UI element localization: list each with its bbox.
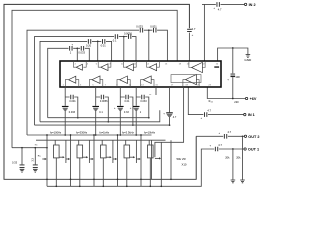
terminal +6V bbox=[245, 97, 247, 99]
terminal IN 1 bbox=[244, 113, 246, 115]
potentiometer mix VR line 1 bbox=[151, 140, 153, 179]
svg-text:20k: 20k bbox=[225, 155, 230, 159]
node OUT2 junction bbox=[242, 135, 244, 137]
wire loop L6 top run bbox=[48, 48, 90, 117]
wire electrolytic to VR bus bbox=[95, 111, 97, 136]
potentiometer VR8 50k drop bbox=[126, 158, 128, 186]
op-amp B5 mixing (bottom row, left-pointing) bbox=[186, 74, 197, 84]
capacitor 0.033 (series) bbox=[136, 97, 149, 118]
ground (OUT2 load) bbox=[240, 180, 245, 183]
wire band 2 feed bbox=[88, 140, 90, 163]
wire loop L5 top run bbox=[40, 41, 112, 121]
svg-text:0.033: 0.033 bbox=[78, 50, 85, 54]
node L5 junction to pin 6 bbox=[97, 41, 99, 43]
svg-text:0.033: 0.033 bbox=[140, 100, 147, 103]
capacitor 0.033 (L3) bbox=[140, 28, 142, 33]
ground GND symbol bbox=[246, 55, 251, 58]
svg-text:4.7: 4.7 bbox=[218, 143, 222, 147]
ground (OUT1 load) bbox=[231, 180, 236, 183]
capacitor 0.001 (L3) bbox=[154, 28, 156, 33]
wire internal links top row bbox=[73, 61, 159, 67]
node L4 junction to pin 10 bbox=[123, 36, 125, 38]
resistor 20k (OUT1 load) bbox=[232, 149, 234, 180]
op-amp B1 (bottom row) bbox=[69, 76, 76, 83]
wire band 1 feed bbox=[65, 140, 67, 163]
wire band 3 feed bbox=[112, 140, 114, 163]
wire VR6 wiper bbox=[106, 156, 110, 158]
node L6 junction to pin 2 bbox=[76, 47, 78, 49]
wire internal links mixer amps bbox=[183, 61, 205, 87]
wire loop L3 top run bbox=[27, 30, 167, 135]
ground (bias cap 1) bbox=[20, 169, 25, 172]
svg-text:OUT 2: OUT 2 bbox=[248, 135, 259, 139]
wire pin stub down at x=120.3 bbox=[119, 87, 121, 106]
capacitor 0.1 electrolytic (to bus) bbox=[92, 106, 99, 107]
svg-text:0.01: 0.01 bbox=[101, 43, 107, 47]
svg-text:50k VR: 50k VR bbox=[177, 157, 186, 161]
wire VR bus 2 y=140.2 bbox=[36, 139, 166, 141]
potentiometer VR3 50k (band 2) bbox=[70, 135, 72, 186]
svg-text:20k: 20k bbox=[236, 155, 241, 159]
wire +6V supply (pin 23 to terminal) bbox=[207, 87, 245, 99]
node L3 junction to pin 14 bbox=[148, 29, 150, 31]
potentiometer VR9 50k (band 5) bbox=[140, 135, 142, 186]
wire IN1 input run (pin 19) bbox=[188, 87, 243, 115]
wire VR7 wiper bbox=[113, 158, 116, 160]
wire IN2 input run bbox=[202, 4, 244, 61]
wire loop L4 top run bbox=[35, 37, 137, 126]
capacitor 4.7 (IN1 coupling) bbox=[204, 112, 206, 117]
capacitor 0.33 (bias filter) bbox=[21, 148, 23, 165]
svg-text:X10: X10 bbox=[182, 162, 187, 166]
op-amp B3 (bottom row) bbox=[120, 76, 128, 83]
terminal OUT 2 bbox=[244, 135, 246, 137]
node bias junction 1 bbox=[21, 147, 23, 149]
wire mix VR wiper bbox=[155, 157, 160, 159]
wire pin17 cap to bus bbox=[169, 117, 171, 125]
capacitor 1 electrolytic (to bus) bbox=[133, 106, 140, 107]
potentiometer VR1 50k (band 1) bbox=[46, 135, 48, 186]
potentiometer VR2 50k drop bbox=[55, 158, 57, 186]
wire VR5 wiper bbox=[89, 158, 92, 160]
wire VR1 wiper bbox=[42, 158, 45, 160]
svg-text:0.01: 0.01 bbox=[125, 100, 130, 103]
link bar pin 24 area bbox=[214, 66, 219, 67]
capacitor 0.0056 (L4) bbox=[128, 34, 130, 39]
svg-text:OUT 1: OUT 1 bbox=[248, 148, 259, 152]
wire VR8 wiper bbox=[130, 156, 134, 158]
capacitor 0.33 electrolytic (to bus) bbox=[117, 106, 124, 107]
wire mix VR feed from pin 21 bbox=[155, 87, 184, 157]
svg-text:4.7: 4.7 bbox=[173, 116, 177, 119]
potentiometer VR10 50k drop bbox=[149, 158, 151, 186]
svg-text:xx: xx bbox=[149, 94, 151, 96]
svg-text:fo=3.3kHz: fo=3.3kHz bbox=[122, 130, 134, 134]
wire VR9 wiper bbox=[136, 158, 139, 160]
op-amp B4 (bottom row) bbox=[143, 76, 151, 84]
potentiometer VR5 50k (band 3) bbox=[93, 135, 95, 186]
node GND net junction bbox=[232, 47, 234, 49]
capacitor 0.033 (L6) bbox=[81, 46, 83, 51]
svg-text:4.7: 4.7 bbox=[192, 27, 196, 31]
svg-text:0.33: 0.33 bbox=[12, 160, 18, 164]
resistor internal (bottom loop) bbox=[171, 75, 201, 83]
capacitor C17 4.7 (in L1 top drop) bbox=[187, 28, 192, 30]
wire pin stub down at x=136.2 bbox=[135, 87, 137, 106]
svg-text:0.1: 0.1 bbox=[99, 111, 103, 114]
potentiometer mix VR line 3 bbox=[170, 140, 172, 179]
capacitor 3.3 (bias filter 2) bbox=[34, 148, 36, 165]
op-amp A5 mixing (top row, left-pointing) bbox=[192, 62, 203, 72]
wire electrolytic to VR bus bbox=[64, 111, 66, 136]
capacitor 4.7 (OUT2 coupling) bbox=[224, 134, 226, 139]
wire GND net (pin 24 up, across) bbox=[218, 48, 248, 61]
capacitor 0.01 (L5) bbox=[102, 39, 104, 44]
wire OUT2 run bbox=[196, 135, 244, 137]
capacitor 0.1 (L4) bbox=[115, 34, 117, 39]
wire pin stub down at x=95.7 bbox=[95, 87, 97, 106]
wire band bus (L5) y=121.8 bbox=[40, 110, 160, 122]
capacitor 0.0056 (series) bbox=[96, 97, 109, 122]
wire VR3 wiper bbox=[66, 158, 69, 160]
capacitor 0.01 (series) bbox=[120, 97, 133, 125]
svg-text:0.33: 0.33 bbox=[124, 111, 129, 114]
svg-text:+6V: +6V bbox=[250, 97, 257, 101]
wire VR2 wiper bbox=[59, 156, 63, 158]
svg-text:100: 100 bbox=[235, 75, 240, 79]
wire band bus (L6) y=117.7 bbox=[48, 117, 149, 119]
op-amp A4 (top row) bbox=[149, 64, 156, 71]
resistor 20k (OUT2 load) bbox=[242, 136, 244, 179]
capacitor 4.7 (IN2 coupling) bbox=[217, 2, 219, 7]
potentiometer VR4 50k drop bbox=[79, 158, 81, 186]
svg-text:0.033: 0.033 bbox=[136, 25, 143, 29]
capacitor 0.001 (series) bbox=[65, 97, 78, 118]
potentiometer VR6 50k drop bbox=[102, 158, 104, 186]
wire pin15 stub bbox=[155, 87, 157, 95]
svg-text:0.033: 0.033 bbox=[69, 111, 76, 114]
wire pin stub down at x=65.2 bbox=[64, 87, 66, 106]
wire bias bus y=147.7 bbox=[12, 147, 47, 149]
wire bus B bottom / OUT1 run bbox=[47, 149, 244, 186]
capacitor 1 polarized (L6) bbox=[70, 46, 72, 51]
svg-text:4.7: 4.7 bbox=[218, 8, 222, 12]
svg-text:IN 2: IN 2 bbox=[249, 3, 256, 7]
svg-text:4.7: 4.7 bbox=[207, 109, 211, 113]
svg-text:fo=1kHz: fo=1kHz bbox=[100, 130, 110, 134]
wire internal links bottom row bbox=[65, 80, 154, 87]
svg-text:GND: GND bbox=[244, 58, 252, 62]
capacitor 0.033 electrolytic (to bus) bbox=[62, 106, 69, 107]
op-amp A2 (top row) bbox=[101, 64, 108, 71]
node bias junction 2 bbox=[34, 147, 36, 149]
svg-text:0.0056: 0.0056 bbox=[100, 100, 108, 103]
wire loop L2 (x=12 / y=10.3 / pin18) bbox=[12, 10, 177, 147]
ground (bias cap 2) bbox=[33, 169, 38, 172]
svg-text:fo=10kHz: fo=10kHz bbox=[144, 130, 156, 134]
terminal OUT 1 bbox=[244, 148, 246, 150]
terminal IN 2 bbox=[244, 3, 246, 5]
capacitor 0.20 (L5) bbox=[88, 39, 90, 44]
capacitor 4.7 polarized (pin 17) bbox=[169, 87, 171, 112]
wire electrolytic to VR bus bbox=[135, 111, 137, 136]
op-amp A3 (top row) bbox=[126, 64, 133, 71]
op-amp IC U1 box bbox=[60, 61, 221, 87]
wire pin20 stub from L1 cap down to IC bbox=[188, 33, 190, 61]
svg-text:fo=100Hz: fo=100Hz bbox=[50, 130, 62, 134]
wire loop L1 left/top/bottom (OUT 2 route) bbox=[4, 4, 196, 179]
node OUT1 junction bbox=[232, 148, 234, 150]
capacitor 100 electrolytic (supply decouple) bbox=[232, 48, 234, 73]
wire band 4 feed bbox=[135, 140, 137, 163]
svg-text:fo=330Hz: fo=330Hz bbox=[76, 130, 88, 134]
svg-text:0.001: 0.001 bbox=[69, 100, 76, 103]
svg-text:0.0056: 0.0056 bbox=[124, 31, 132, 35]
wire VR4 wiper bbox=[83, 156, 87, 158]
potentiometer mix VR line 2 bbox=[160, 142, 162, 186]
svg-text:0.1: 0.1 bbox=[113, 39, 117, 43]
wire electrolytic to VR bus bbox=[119, 111, 121, 136]
capacitor 4.7 (OUT1 coupling) bbox=[215, 147, 217, 152]
svg-text:4.7: 4.7 bbox=[228, 130, 232, 134]
svg-text:220: 220 bbox=[234, 100, 239, 104]
node bias bus / VR riser junction bbox=[46, 147, 48, 149]
node +6V junction bbox=[232, 98, 234, 100]
wire VR bus 1 y=135 bbox=[27, 134, 152, 136]
potentiometer VR7 50k (band 4) bbox=[117, 135, 119, 186]
svg-text:0.001: 0.001 bbox=[150, 25, 157, 29]
svg-text:IN 1: IN 1 bbox=[248, 113, 255, 117]
op-amp A1 (top row) bbox=[76, 64, 82, 70]
wire band bus (L4) y=125.1 bbox=[35, 124, 170, 126]
op-amp B2 (bottom row) bbox=[92, 76, 100, 84]
svg-text:0.20: 0.20 bbox=[86, 43, 92, 47]
